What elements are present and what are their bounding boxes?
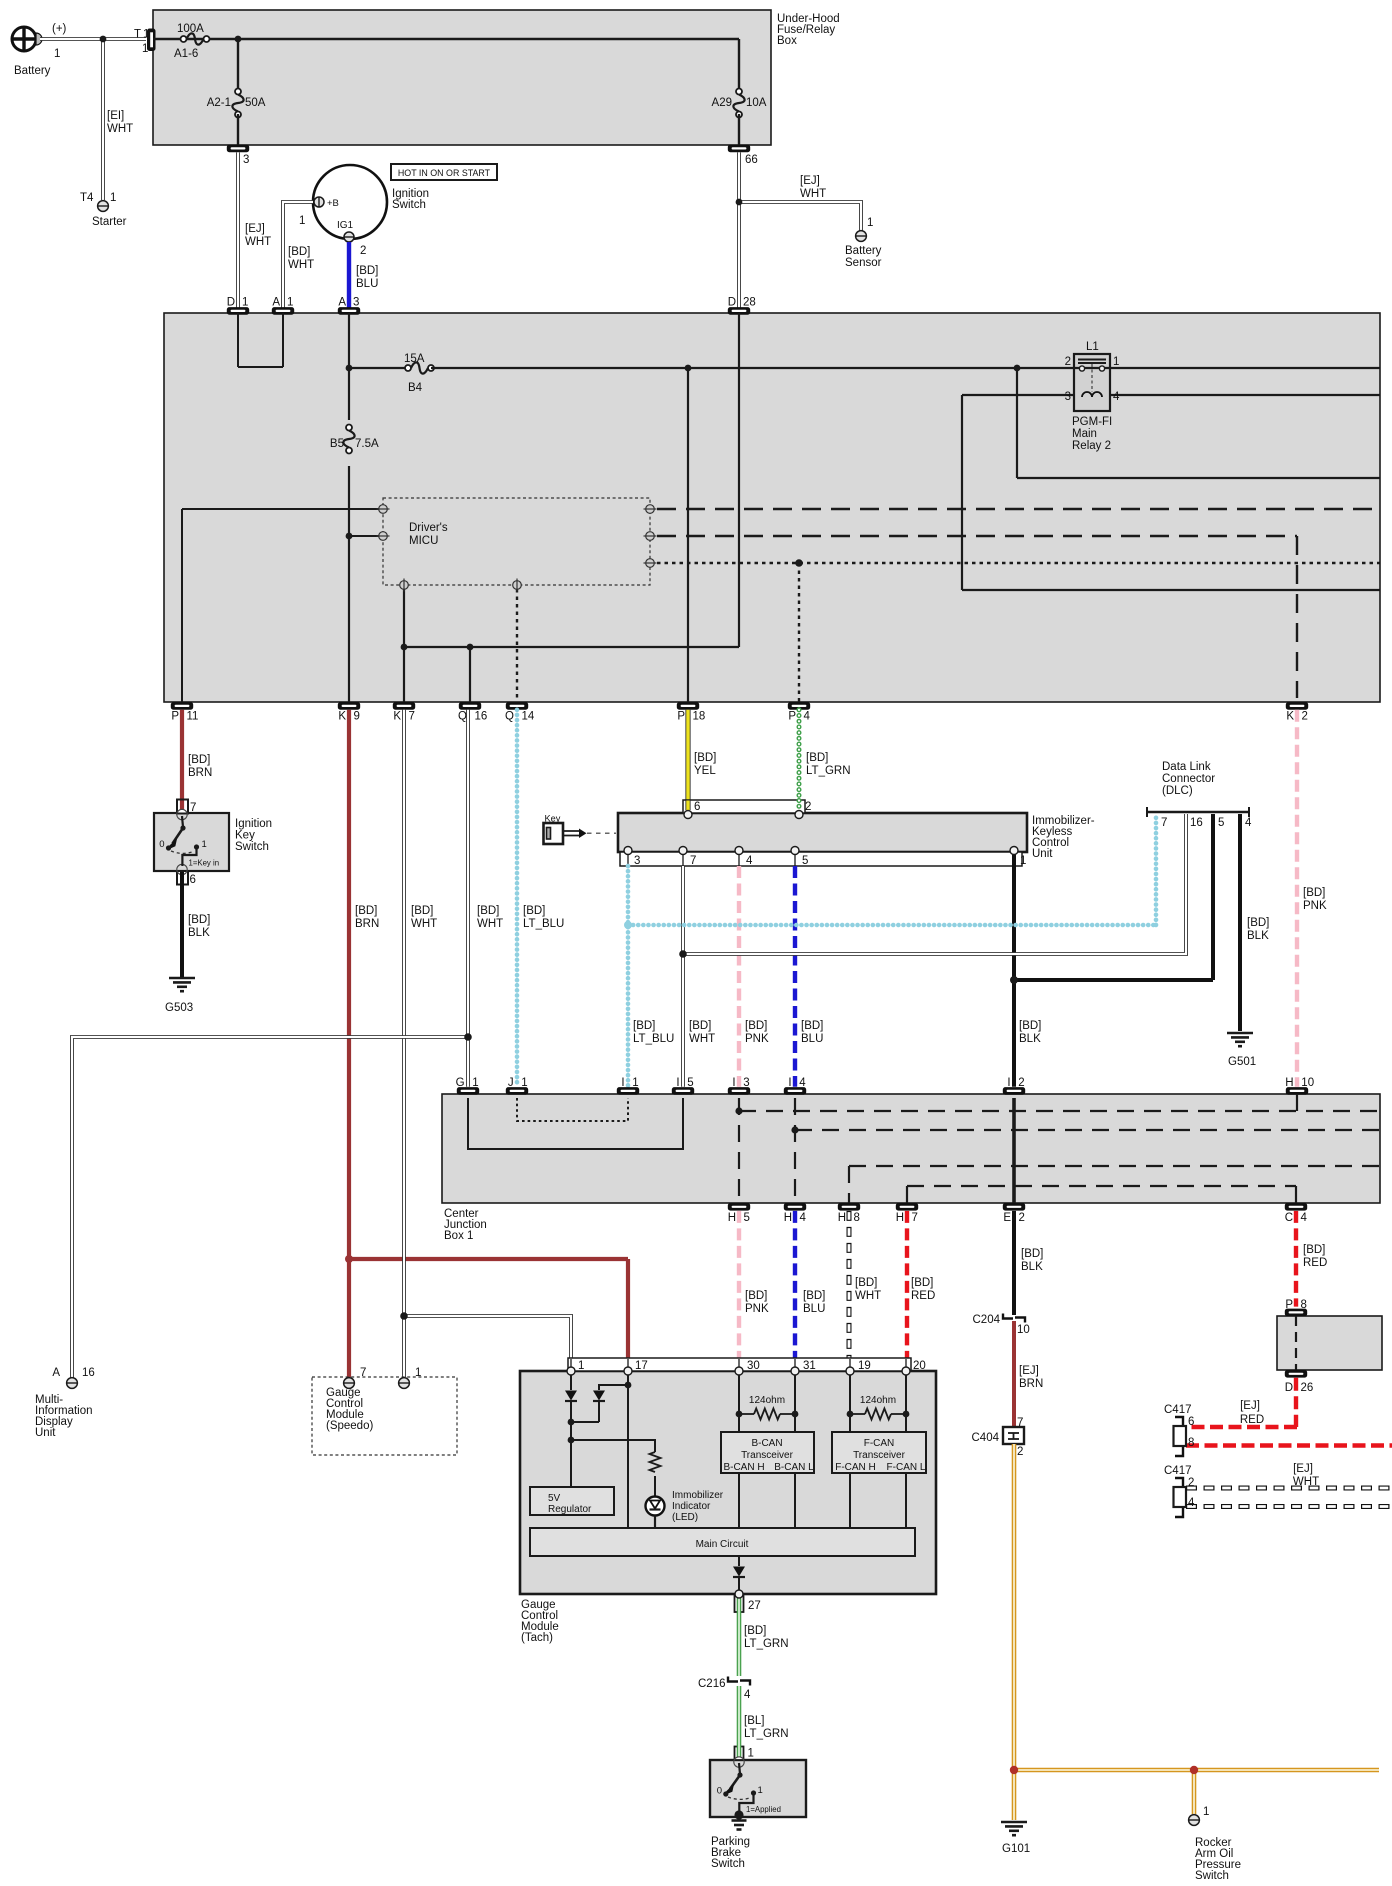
svg-text:31: 31 xyxy=(803,1360,816,1372)
svg-text:[BD]: [BD] xyxy=(694,752,716,764)
svg-text:[BD]: [BD] xyxy=(806,752,828,764)
svg-text:BLK: BLK xyxy=(1019,1033,1041,1045)
svg-text:WHT: WHT xyxy=(1293,1476,1319,1488)
svg-text:8: 8 xyxy=(1188,1437,1194,1449)
svg-text:15A: 15A xyxy=(404,353,425,365)
svg-text:I: I xyxy=(621,1077,624,1089)
svg-text:[BD]: [BD] xyxy=(801,1020,823,1032)
svg-text:1: 1 xyxy=(415,1367,421,1379)
svg-text:C216: C216 xyxy=(698,1678,726,1690)
svg-text:A: A xyxy=(52,1367,60,1379)
svg-text:G: G xyxy=(456,1077,465,1089)
svg-text:B5: B5 xyxy=(330,438,344,450)
svg-text:16: 16 xyxy=(1190,817,1203,829)
svg-text:BLU: BLU xyxy=(356,278,378,290)
svg-text:5V: 5V xyxy=(548,1493,561,1504)
svg-text:3: 3 xyxy=(353,297,359,309)
svg-text:[BD]: [BD] xyxy=(188,754,210,766)
svg-text:1: 1 xyxy=(1020,855,1026,867)
svg-text:6: 6 xyxy=(190,874,196,886)
svg-text:1: 1 xyxy=(202,839,207,850)
svg-text:1: 1 xyxy=(758,1785,763,1796)
svg-text:YEL: YEL xyxy=(694,765,716,777)
svg-text:1: 1 xyxy=(867,217,873,229)
svg-text:2: 2 xyxy=(1302,711,1308,723)
svg-text:2: 2 xyxy=(1017,1446,1023,1458)
svg-text:C: C xyxy=(1285,1212,1293,1224)
svg-text:Switch: Switch xyxy=(235,841,269,853)
svg-text:1: 1 xyxy=(242,297,248,309)
svg-text:B-CAN: B-CAN xyxy=(751,1438,782,1449)
svg-text:10: 10 xyxy=(1017,1324,1030,1336)
svg-text:H: H xyxy=(728,1212,736,1224)
svg-text:Unit: Unit xyxy=(35,1427,56,1439)
svg-text:1: 1 xyxy=(299,215,305,227)
svg-text:124ohm: 124ohm xyxy=(749,1395,785,1406)
svg-text:4: 4 xyxy=(1245,817,1252,829)
svg-text:[BD]: [BD] xyxy=(355,905,377,917)
svg-text:50A: 50A xyxy=(245,97,266,109)
svg-text:Box 1: Box 1 xyxy=(444,1230,473,1242)
svg-text:K: K xyxy=(393,711,401,723)
svg-text:BLK: BLK xyxy=(188,927,210,939)
svg-text:G503: G503 xyxy=(165,1002,193,1014)
svg-text:HOT IN ON OR START: HOT IN ON OR START xyxy=(398,168,491,178)
svg-text:30: 30 xyxy=(747,1360,760,1372)
svg-text:RED: RED xyxy=(1303,1257,1327,1269)
svg-text:Connector: Connector xyxy=(1162,773,1215,785)
svg-text:[BD]: [BD] xyxy=(1021,1248,1043,1260)
svg-text:Q: Q xyxy=(505,711,514,723)
svg-text:7: 7 xyxy=(409,711,415,723)
svg-text:16: 16 xyxy=(475,711,488,723)
svg-text:[BD]: [BD] xyxy=(288,246,310,258)
svg-text:2: 2 xyxy=(1018,1077,1024,1089)
svg-text:MICU: MICU xyxy=(409,535,438,547)
svg-text:K: K xyxy=(1286,711,1294,723)
svg-text:1=Applied: 1=Applied xyxy=(746,1805,781,1814)
svg-text:6: 6 xyxy=(1188,1416,1194,1428)
svg-text:Main: Main xyxy=(1072,428,1097,440)
svg-text:2: 2 xyxy=(1188,1477,1194,1489)
svg-text:E: E xyxy=(1003,1212,1011,1224)
svg-text:2: 2 xyxy=(1065,356,1071,368)
svg-text:PGM-FI: PGM-FI xyxy=(1072,416,1112,428)
svg-text:Regulator: Regulator xyxy=(548,1504,592,1515)
svg-text:Transceiver: Transceiver xyxy=(853,1450,906,1461)
svg-text:Driver's: Driver's xyxy=(409,522,448,534)
svg-text:0: 0 xyxy=(159,839,164,850)
svg-text:[EJ]: [EJ] xyxy=(800,175,820,187)
svg-text:B-CAN L: B-CAN L xyxy=(774,1462,814,1473)
svg-text:D: D xyxy=(1285,1382,1293,1394)
svg-text:A2-1: A2-1 xyxy=(207,97,231,109)
svg-text:1: 1 xyxy=(1113,356,1119,368)
svg-text:27: 27 xyxy=(748,1600,761,1612)
svg-text:[BD]: [BD] xyxy=(855,1277,877,1289)
svg-text:4: 4 xyxy=(1113,391,1120,403)
svg-text:C417: C417 xyxy=(1164,1404,1192,1416)
svg-text:[BD]: [BD] xyxy=(1247,917,1269,929)
svg-text:[BD]: [BD] xyxy=(1303,1244,1325,1256)
svg-text:P: P xyxy=(677,711,685,723)
svg-text:28: 28 xyxy=(743,297,756,309)
svg-text:BRN: BRN xyxy=(1019,1378,1043,1390)
svg-text:1: 1 xyxy=(521,1077,527,1089)
svg-text:PNK: PNK xyxy=(745,1303,769,1315)
svg-text:P: P xyxy=(171,711,179,723)
svg-text:1: 1 xyxy=(1203,1806,1209,1818)
svg-text:BRN: BRN xyxy=(188,767,212,779)
svg-text:Key: Key xyxy=(235,830,255,842)
svg-text:Relay 2: Relay 2 xyxy=(1072,440,1111,452)
svg-text:P: P xyxy=(788,711,796,723)
svg-text:5: 5 xyxy=(802,855,808,867)
svg-text:[BD]: [BD] xyxy=(411,905,433,917)
svg-text:P: P xyxy=(1285,1299,1293,1311)
svg-text:3: 3 xyxy=(243,154,249,166)
svg-text:1: 1 xyxy=(54,48,60,60)
svg-text:4: 4 xyxy=(799,1077,806,1089)
svg-text:7: 7 xyxy=(360,1367,366,1379)
svg-text:LT_BLU: LT_BLU xyxy=(633,1033,674,1045)
svg-text:Main Circuit: Main Circuit xyxy=(696,1539,749,1550)
svg-text:LT_BLU: LT_BLU xyxy=(523,918,564,930)
svg-text:10: 10 xyxy=(1301,1077,1314,1089)
svg-text:3: 3 xyxy=(1065,391,1071,403)
svg-text:Starter: Starter xyxy=(92,216,127,228)
svg-text:[BD]: [BD] xyxy=(745,1290,767,1302)
svg-text:[BD]: [BD] xyxy=(356,265,378,277)
svg-text:[EJ]: [EJ] xyxy=(1293,1463,1313,1475)
svg-text:4: 4 xyxy=(804,711,811,723)
svg-text:1: 1 xyxy=(578,1360,584,1372)
svg-text:1: 1 xyxy=(472,1077,478,1089)
svg-text:BLK: BLK xyxy=(1247,930,1269,942)
svg-text:[BD]: [BD] xyxy=(744,1625,766,1637)
svg-text:1: 1 xyxy=(110,192,116,204)
svg-text:PNK: PNK xyxy=(745,1033,769,1045)
svg-text:Unit: Unit xyxy=(1032,848,1053,860)
svg-text:11: 11 xyxy=(187,711,199,723)
svg-text:WHT: WHT xyxy=(411,918,437,930)
svg-text:H: H xyxy=(784,1212,792,1224)
svg-text:1: 1 xyxy=(748,1748,754,1760)
svg-text:124ohm: 124ohm xyxy=(860,1395,896,1406)
svg-text:1: 1 xyxy=(142,43,148,55)
svg-text:[BD]: [BD] xyxy=(633,1020,655,1032)
svg-text:WHT: WHT xyxy=(107,123,133,135)
svg-text:2: 2 xyxy=(360,245,366,257)
svg-text:J: J xyxy=(508,1077,514,1089)
svg-text:16: 16 xyxy=(82,1367,95,1379)
svg-text:Switch: Switch xyxy=(711,1858,745,1870)
svg-text:I: I xyxy=(1007,1077,1010,1089)
svg-text:G101: G101 xyxy=(1002,1843,1030,1855)
svg-text:7: 7 xyxy=(1161,817,1167,829)
svg-text:5: 5 xyxy=(687,1077,693,1089)
svg-text:H: H xyxy=(838,1212,846,1224)
svg-text:[EJ]: [EJ] xyxy=(1019,1365,1039,1377)
svg-text:A: A xyxy=(272,297,280,309)
svg-text:D: D xyxy=(728,297,736,309)
svg-text:66: 66 xyxy=(745,154,758,166)
svg-text:BLU: BLU xyxy=(803,1303,825,1315)
svg-text:B4: B4 xyxy=(408,382,423,394)
svg-text:WHT: WHT xyxy=(245,236,271,248)
svg-text:7: 7 xyxy=(1017,1417,1023,1429)
svg-text:3: 3 xyxy=(743,1077,749,1089)
svg-text:WHT: WHT xyxy=(689,1033,715,1045)
svg-text:5: 5 xyxy=(744,1212,750,1224)
svg-text:PNK: PNK xyxy=(1303,900,1327,912)
svg-text:F-CAN: F-CAN xyxy=(864,1438,895,1449)
svg-text:Battery: Battery xyxy=(14,65,51,77)
svg-text:Box: Box xyxy=(777,35,797,47)
svg-text:Key: Key xyxy=(545,814,561,824)
svg-text:LT_GRN: LT_GRN xyxy=(744,1728,789,1740)
svg-text:1: 1 xyxy=(287,297,293,309)
svg-text:F-CAN L: F-CAN L xyxy=(887,1462,926,1473)
svg-text:4: 4 xyxy=(1301,1212,1308,1224)
svg-text:[BD]: [BD] xyxy=(911,1277,933,1289)
svg-text:7: 7 xyxy=(190,802,196,814)
svg-text:Battery: Battery xyxy=(845,245,882,257)
svg-text:2: 2 xyxy=(805,801,811,813)
svg-text:LT_GRN: LT_GRN xyxy=(744,1638,789,1650)
svg-text:[BD]: [BD] xyxy=(477,905,499,917)
svg-text:[BD]: [BD] xyxy=(523,905,545,917)
svg-text:20: 20 xyxy=(913,1360,926,1372)
svg-text:[BD]: [BD] xyxy=(1303,887,1325,899)
svg-text:Transceiver: Transceiver xyxy=(741,1450,794,1461)
svg-text:K: K xyxy=(338,711,346,723)
svg-text:(Speedo): (Speedo) xyxy=(326,1420,373,1432)
svg-text:H: H xyxy=(896,1212,904,1224)
svg-text:D: D xyxy=(227,297,235,309)
svg-text:7: 7 xyxy=(690,855,696,867)
svg-text:H: H xyxy=(1285,1077,1293,1089)
svg-text:7.5A: 7.5A xyxy=(355,438,379,450)
svg-text:4: 4 xyxy=(744,1689,751,1701)
svg-text:4: 4 xyxy=(1188,1497,1195,1509)
svg-text:RED: RED xyxy=(911,1290,935,1302)
svg-text:[BD]: [BD] xyxy=(188,914,210,926)
svg-text:1: 1 xyxy=(632,1077,638,1089)
svg-text:Immobilizer: Immobilizer xyxy=(672,1490,724,1501)
svg-text:[EJ]: [EJ] xyxy=(245,223,265,235)
svg-text:4: 4 xyxy=(746,855,753,867)
svg-text:[BD]: [BD] xyxy=(1019,1020,1041,1032)
svg-text:T: T xyxy=(134,29,141,41)
svg-text:C204: C204 xyxy=(973,1314,1001,1326)
svg-text:G501: G501 xyxy=(1228,1056,1256,1068)
svg-text:14: 14 xyxy=(522,711,535,723)
svg-text:5: 5 xyxy=(1218,817,1224,829)
svg-text:C417: C417 xyxy=(1164,1465,1192,1477)
svg-text:I: I xyxy=(788,1077,791,1089)
svg-text:F-CAN H: F-CAN H xyxy=(835,1462,876,1473)
svg-text:WHT: WHT xyxy=(800,188,826,200)
svg-text:100A: 100A xyxy=(177,23,204,35)
svg-text:26: 26 xyxy=(1301,1382,1314,1394)
svg-text:[BD]: [BD] xyxy=(803,1290,825,1302)
svg-text:[EJ]: [EJ] xyxy=(1240,1400,1260,1412)
svg-text:1: 1 xyxy=(143,29,149,41)
svg-text:WHT: WHT xyxy=(855,1290,881,1302)
svg-text:(Tach): (Tach) xyxy=(521,1632,553,1644)
svg-text:6: 6 xyxy=(694,801,700,813)
svg-text:Q: Q xyxy=(458,711,467,723)
svg-text:10A: 10A xyxy=(746,97,767,109)
svg-text:A1-6: A1-6 xyxy=(174,48,198,60)
svg-text:[BD]: [BD] xyxy=(689,1020,711,1032)
svg-text:[BL]: [BL] xyxy=(744,1715,764,1727)
svg-text:C404: C404 xyxy=(972,1432,1000,1444)
svg-text:2: 2 xyxy=(1019,1212,1025,1224)
svg-text:[BD]: [BD] xyxy=(745,1020,767,1032)
svg-text:19: 19 xyxy=(858,1360,871,1372)
svg-text:B-CAN H: B-CAN H xyxy=(723,1462,764,1473)
svg-text:17: 17 xyxy=(635,1360,648,1372)
svg-text:BLU: BLU xyxy=(801,1033,823,1045)
svg-text:(DLC): (DLC) xyxy=(1162,785,1193,797)
svg-text:(LED): (LED) xyxy=(672,1512,698,1523)
svg-text:Ignition: Ignition xyxy=(235,818,272,830)
svg-text:0: 0 xyxy=(717,1786,722,1797)
svg-text:+B: +B xyxy=(327,198,339,209)
svg-text:BLK: BLK xyxy=(1021,1261,1043,1273)
svg-text:Indicator: Indicator xyxy=(672,1501,711,1512)
svg-text:A29: A29 xyxy=(712,97,732,109)
svg-text:[EI]: [EI] xyxy=(107,110,124,122)
svg-text:I: I xyxy=(732,1077,735,1089)
svg-text:Switch: Switch xyxy=(1195,1870,1229,1882)
svg-text:Data Link: Data Link xyxy=(1162,761,1211,773)
svg-text:A: A xyxy=(338,297,346,309)
svg-text:WHT: WHT xyxy=(288,259,314,271)
svg-text:RED: RED xyxy=(1240,1414,1264,1426)
svg-text:I: I xyxy=(676,1077,679,1089)
svg-text:BRN: BRN xyxy=(355,918,379,930)
svg-text:L1: L1 xyxy=(1086,341,1099,353)
svg-text:3: 3 xyxy=(634,855,640,867)
svg-text:8: 8 xyxy=(854,1212,860,1224)
svg-text:(+): (+) xyxy=(52,23,67,35)
svg-text:9: 9 xyxy=(354,711,360,723)
svg-text:WHT: WHT xyxy=(477,918,503,930)
svg-text:7: 7 xyxy=(912,1212,918,1224)
svg-text:Switch: Switch xyxy=(392,199,426,211)
svg-text:Sensor: Sensor xyxy=(845,257,882,269)
svg-text:1=Key in: 1=Key in xyxy=(189,859,220,868)
svg-text:4: 4 xyxy=(800,1212,807,1224)
svg-text:LT_GRN: LT_GRN xyxy=(806,765,851,777)
svg-text:T4: T4 xyxy=(80,192,94,204)
svg-text:8: 8 xyxy=(1301,1299,1307,1311)
svg-text:IG1: IG1 xyxy=(337,220,354,231)
svg-text:18: 18 xyxy=(693,711,706,723)
